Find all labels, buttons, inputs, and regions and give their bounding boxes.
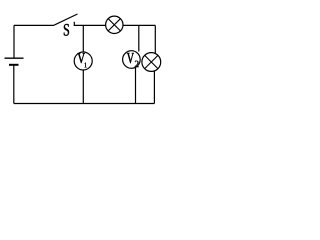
wire switch to lamp L1 (74, 24, 105, 26)
wire V1 to bottom (82, 70, 84, 104)
battery cell plate short (-) (9, 64, 19, 66)
voltmeter V1 label subscript 1 (85, 63, 87, 68)
battery cell plate long (+) (5, 57, 24, 59)
label S (64, 24, 69, 36)
switch S blade (54, 14, 78, 25)
wire junction down to voltmeter V1 (82, 25, 84, 52)
voltmeter V2 label V (127, 53, 134, 63)
lamp L1 cross stroke 1 (108, 19, 120, 31)
wire battery to bottom-left corner (13, 65, 15, 104)
voltmeter V2 label subscript 2 (135, 61, 139, 67)
lamp L2 cross stroke 1 (145, 55, 158, 68)
wire right vertical to lamp L2 (154, 25, 156, 53)
lamp L1 circle (106, 16, 123, 33)
voltmeter V2 circle (123, 51, 141, 69)
voltmeter V1 circle (74, 52, 92, 70)
lamp L2 cross stroke 2 (145, 55, 158, 68)
wire junction down to voltmeter V2 (138, 25, 140, 51)
switch fixed contact (73, 22, 75, 26)
wire bottom horizontal (14, 103, 155, 105)
wire V2 to bottom (135, 68, 137, 104)
lamp L2 circle (142, 53, 161, 72)
voltmeter V1 label V (78, 53, 85, 63)
wire lamp L1 to top-right corner (123, 24, 155, 26)
wire top-left horizontal (14, 24, 54, 26)
wire lamp L2 to bottom-right corner (153, 71, 155, 103)
lamp L1 cross stroke 2 (108, 19, 120, 31)
wire left vertical (13, 25, 15, 57)
